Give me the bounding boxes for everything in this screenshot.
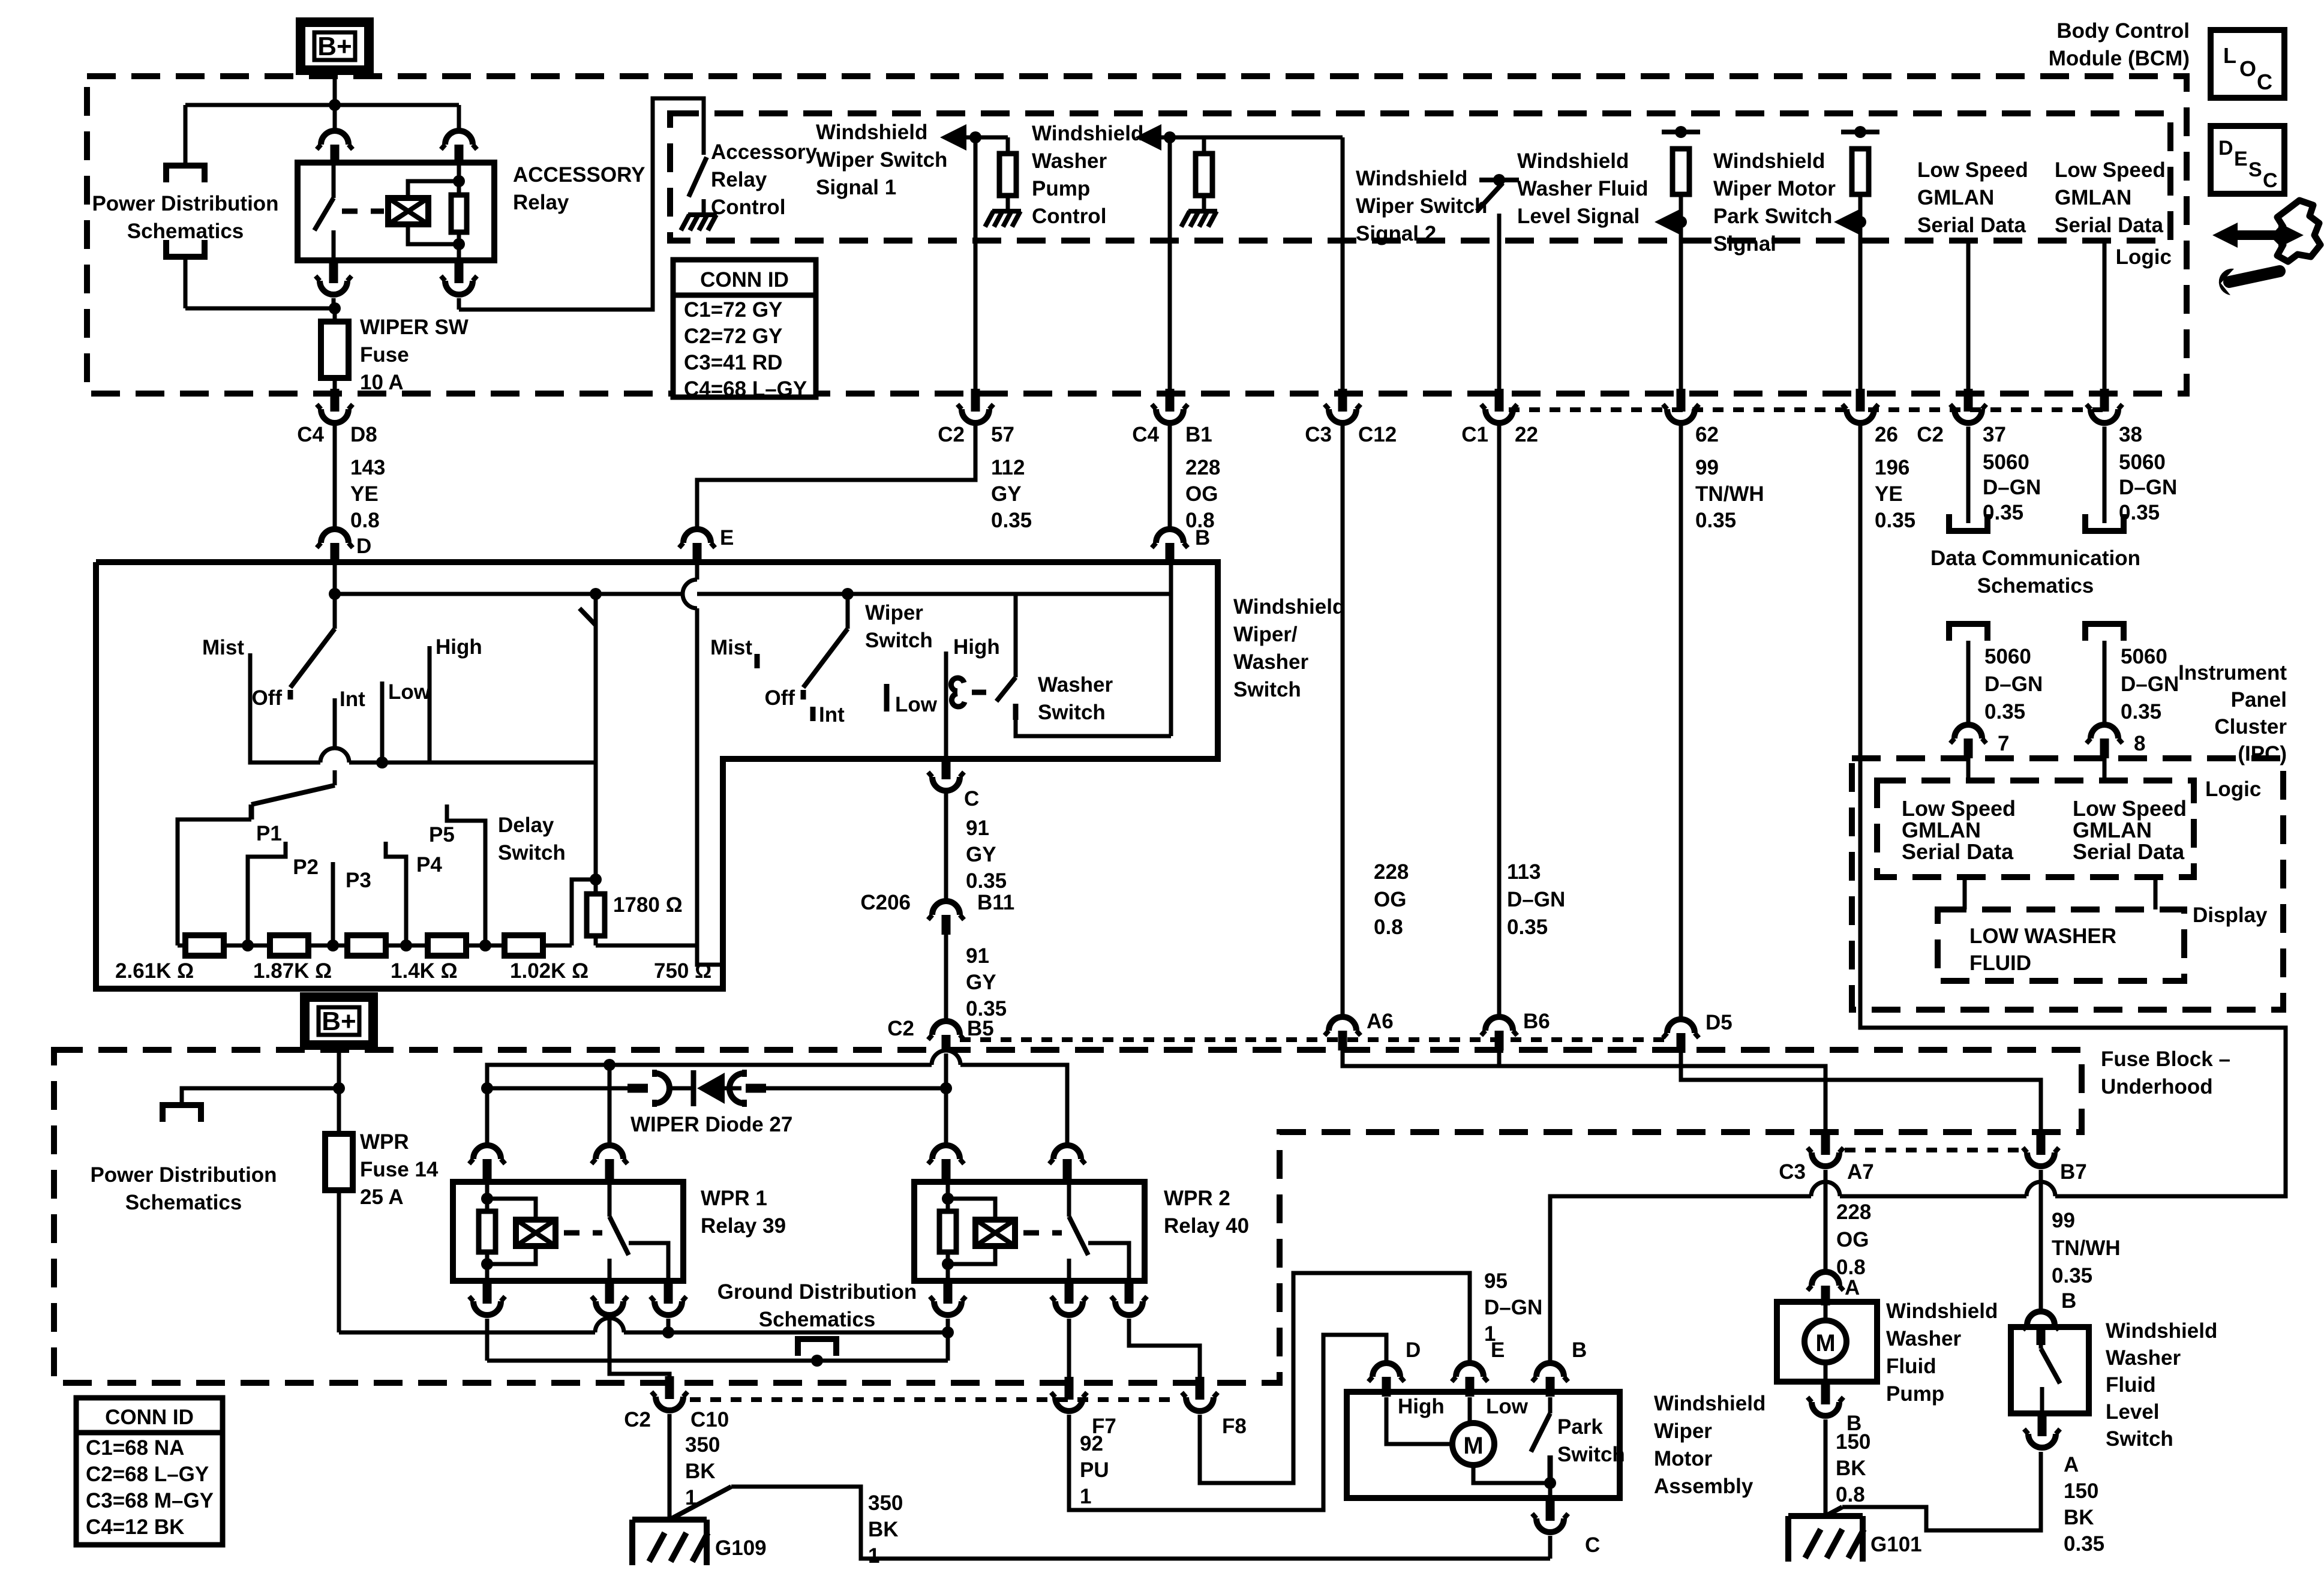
connector 7 [1954, 725, 1982, 739]
svg-text:C2=72 GY: C2=72 GY [684, 325, 782, 348]
svg-text:Delay: Delay [498, 813, 554, 837]
svg-text:D: D [2218, 137, 2233, 160]
svg-text:D: D [356, 535, 371, 558]
wire logic to display left [1963, 877, 1967, 909]
off-page connector data comm top right [2085, 514, 2124, 531]
svg-text:CONN ID: CONN ID [700, 268, 789, 292]
svg-text:57: 57 [991, 423, 1014, 446]
wire B down right side [1169, 562, 1173, 736]
svg-text:150: 150 [1836, 1430, 1870, 1454]
ground BCM signal1 [985, 211, 993, 227]
connector D5 [1667, 1019, 1695, 1033]
svg-text:YE: YE [1875, 482, 1903, 506]
wire top rail [185, 103, 459, 107]
wire B+2 down [337, 1045, 341, 1088]
hop of bus over Int wire [250, 761, 320, 765]
connector A level switch [2038, 1413, 2047, 1436]
svg-text:0.35: 0.35 [1695, 509, 1736, 532]
svg-text:O: O [2239, 56, 2256, 81]
svg-text:GY: GY [966, 971, 996, 994]
svg-text:Washer: Washer [1233, 650, 1309, 674]
svg-text:91: 91 [966, 816, 989, 840]
svg-text:Low: Low [388, 680, 431, 704]
svg-text:D: D [1406, 1338, 1421, 1362]
dotted line C2 bottom [960, 1037, 1674, 1042]
connector 8 [2091, 725, 2118, 739]
svg-text:0.8: 0.8 [350, 509, 380, 532]
svg-text:0.8: 0.8 [1374, 915, 1403, 939]
washer fluid level switch symbol in BCM [1479, 178, 1519, 182]
wire 62 park switch signal [1675, 126, 1687, 138]
svg-text:Mist: Mist [202, 636, 244, 659]
svg-text:P1: P1 [256, 822, 282, 845]
svg-text:B11: B11 [977, 891, 1014, 914]
svg-text:C1: C1 [1461, 423, 1488, 446]
svg-text:143: 143 [350, 456, 385, 479]
svg-text:Accessory: Accessory [711, 140, 818, 164]
connector C3-A7 [1821, 1132, 1830, 1155]
connector F8 [1196, 1377, 1205, 1400]
High pin [428, 646, 432, 763]
svg-text:P5: P5 [429, 823, 455, 846]
connector C2-B5 [932, 1021, 960, 1035]
off-page connector power distribution 2 [163, 1105, 201, 1122]
svg-text:M: M [1815, 1330, 1835, 1356]
svg-text:C2: C2 [1917, 423, 1944, 446]
svg-text:Pump: Pump [1032, 177, 1090, 200]
svg-text:A: A [1845, 1276, 1860, 1299]
op windshield wiper motor assembly box [1347, 1392, 1620, 1498]
svg-text:LOW WASHER: LOW WASHER [1969, 924, 2116, 948]
svg-text:1.02K Ω: 1.02K Ω [510, 959, 588, 983]
resistor 1.02K [428, 935, 466, 956]
wire D5 [1679, 425, 1683, 1017]
wire B1 down [1168, 137, 1172, 390]
svg-text:D–GN: D–GN [2119, 476, 2177, 499]
wire B7 to level switch [2039, 1170, 2043, 1310]
svg-text:A6: A6 [1367, 1010, 1394, 1033]
diode symbol [691, 1070, 696, 1106]
resistor BCM washer pump [1202, 137, 1206, 154]
svg-text:0.35: 0.35 [2064, 1532, 2104, 1556]
B+ terminal top [301, 22, 369, 70]
svg-text:92: 92 [1080, 1432, 1103, 1455]
svg-text:5060: 5060 [1984, 645, 2031, 668]
svg-text:P3: P3 [346, 869, 371, 892]
connector C4-D8 at BCM bottom [331, 389, 340, 412]
svg-text:Switch: Switch [1038, 701, 1106, 724]
wire G109 branch to motor return [669, 1487, 731, 1520]
svg-text:Windshield: Windshield [2106, 1319, 2217, 1343]
svg-text:Schematics: Schematics [125, 1191, 242, 1214]
wire B5 down to relay40 coil [944, 1053, 948, 1143]
svg-text:Wiper Switch: Wiper Switch [1356, 194, 1487, 218]
fuse WIPER SW Fuse 10A [333, 308, 337, 323]
DESC box [2211, 126, 2284, 194]
svg-text:C: C [2263, 169, 2278, 192]
wire 37 [1966, 241, 1971, 390]
washer pump control arrow [1135, 124, 1161, 151]
svg-text:Serial Data: Serial Data [2055, 214, 2163, 237]
wire relay40 coil return [946, 1319, 950, 1361]
wire 38 to bracket [2103, 427, 2107, 523]
relay39 switch [608, 1182, 612, 1217]
svg-text:Washer: Washer [1886, 1327, 1962, 1350]
svg-text:Schematics: Schematics [759, 1308, 876, 1331]
wire F7 down [1067, 1319, 1071, 1378]
relay39 dashed link [564, 1230, 602, 1236]
connector B pump [1821, 1382, 1830, 1404]
connector C4-B1 [1166, 389, 1175, 412]
svg-text:GMLAN: GMLAN [1902, 818, 1981, 842]
node P4 tap [479, 939, 491, 951]
off-page connector data comm bottom right [2085, 624, 2124, 641]
wire 143 YE to D connector [333, 425, 337, 527]
washer switch dashed link [972, 690, 997, 695]
svg-text:38: 38 [2119, 423, 2142, 446]
svg-text:P2: P2 [293, 855, 319, 879]
node relay40 coil [942, 1326, 954, 1338]
svg-text:0.35: 0.35 [1507, 915, 1548, 939]
svg-text:Logic: Logic [2116, 245, 2172, 269]
node rail junction [329, 99, 341, 111]
svg-text:C4: C4 [1132, 423, 1159, 446]
node park [1544, 1477, 1556, 1489]
svg-text:C4=12 BK: C4=12 BK [86, 1515, 184, 1539]
relay39 bottom connectors [483, 1281, 492, 1304]
svg-text:Windshield: Windshield [1032, 122, 1143, 145]
svg-text:99: 99 [1695, 456, 1719, 479]
svg-text:ACCESSORY: ACCESSORY [513, 163, 645, 187]
wire B6 [1497, 425, 1502, 1014]
wire motor to park node [1473, 1465, 1550, 1483]
wire F8 jog [1129, 1319, 1200, 1378]
svg-text:228: 228 [1185, 456, 1220, 479]
svg-text:Instrument: Instrument [2178, 661, 2287, 685]
svg-text:Windshield: Windshield [1356, 167, 1467, 190]
svg-text:Body Control: Body Control [2056, 19, 2190, 43]
ground G101 [1788, 1513, 1863, 1519]
left wiper switch blade [333, 594, 337, 629]
svg-text:7: 7 [1998, 732, 2009, 755]
relay40 dashed link [1023, 1230, 1062, 1236]
svg-text:B+: B+ [322, 1007, 356, 1036]
op washer pump box [1777, 1302, 1877, 1382]
P5 rail end riser [572, 879, 596, 945]
wiper switch signal 1 arrow [940, 124, 966, 151]
svg-text:95: 95 [1484, 1269, 1508, 1293]
svg-text:D–GN: D–GN [2121, 673, 2179, 696]
svg-text:Signal 1: Signal 1 [816, 176, 896, 199]
svg-text:C2=68 L–GY: C2=68 L–GY [86, 1463, 209, 1486]
svg-text:Assembly: Assembly [1654, 1475, 1753, 1498]
svg-text:TN/WH: TN/WH [2052, 1236, 2121, 1260]
svg-text:Level Signal: Level Signal [1517, 205, 1640, 228]
wire 5060 left [1966, 641, 1971, 722]
svg-text:Int: Int [340, 688, 365, 711]
svg-text:C3=68 M–GY: C3=68 M–GY [86, 1489, 214, 1512]
svg-text:E: E [2234, 148, 2248, 170]
resistor 1780 [594, 879, 598, 894]
svg-text:Signal 2: Signal 2 [1356, 222, 1436, 245]
svg-text:Module (BCM): Module (BCM) [2049, 47, 2190, 70]
svg-text:Logic: Logic [2205, 778, 2261, 801]
wire from bracket to fuse node [184, 258, 188, 308]
wire 57 down [974, 137, 978, 390]
wire A6 [1341, 425, 1345, 1014]
svg-text:Windshield: Windshield [1654, 1392, 1765, 1415]
resistor 1.4K [347, 935, 386, 956]
svg-text:G109: G109 [715, 1536, 767, 1560]
svg-text:C: C [2257, 70, 2272, 94]
accessory relay coil [388, 198, 428, 224]
arrow park switch signal [1655, 209, 1681, 235]
svg-text:37: 37 [1983, 423, 2006, 446]
wire pump to G101 [1824, 1419, 1828, 1516]
svg-text:Low Speed: Low Speed [1917, 158, 2028, 182]
svg-text:BK: BK [868, 1518, 899, 1541]
svg-text:A7: A7 [1847, 1160, 1874, 1184]
wire 26 [1854, 126, 1866, 138]
svg-text:M: M [1463, 1433, 1483, 1459]
High wire right switch [944, 652, 948, 759]
svg-text:WIPER Diode 27: WIPER Diode 27 [630, 1113, 792, 1136]
svg-text:Switch: Switch [1557, 1443, 1625, 1466]
svg-text:Off: Off [251, 686, 282, 710]
wire 37 to bracket [1966, 427, 1971, 523]
svg-text:F8: F8 [1222, 1415, 1247, 1438]
washer switch blade [996, 677, 1016, 701]
svg-text:1780 Ω: 1780 Ω [613, 893, 683, 917]
connector C206-B11 [932, 901, 960, 915]
svg-text:0.35: 0.35 [1875, 509, 1915, 532]
op washer fluid level switch box [2011, 1327, 2089, 1413]
svg-text:Serial Data: Serial Data [1917, 214, 2026, 237]
svg-text:Washer: Washer [1032, 149, 1107, 173]
svg-text:A: A [2064, 1453, 2079, 1476]
connector 26 [1856, 389, 1865, 412]
svg-text:Data Communication: Data Communication [1930, 547, 2140, 570]
accessory relay pin connectors top [333, 105, 337, 128]
svg-text:High: High [953, 635, 1000, 659]
dotted connector line C1 [1509, 407, 1852, 412]
svg-text:E: E [720, 526, 734, 550]
wire A7 to washer pump [1824, 1170, 1828, 1271]
connector 62 [1677, 389, 1686, 412]
svg-text:5060: 5060 [1983, 451, 2029, 474]
svg-text:B: B [2061, 1289, 2076, 1313]
Int wire below bus to delay blade [333, 770, 337, 785]
accessory relay control switch blade [689, 157, 707, 197]
op wiper washer switch assembly box outline [96, 562, 1218, 989]
dotted line A7 B7 [1845, 1148, 2022, 1152]
svg-text:BK: BK [2064, 1506, 2094, 1529]
wire 5060 right [2103, 641, 2107, 722]
svg-text:26: 26 [1875, 423, 1898, 446]
svg-text:B: B [1572, 1338, 1587, 1362]
connector D of wiper washer switch [321, 529, 349, 543]
wire relay39 third pin [666, 1319, 671, 1332]
wire D5 to B7 [1681, 1052, 2041, 1133]
svg-text:Schematics: Schematics [127, 220, 244, 243]
connector B6 [1485, 1017, 1513, 1031]
svg-text:WPR 2: WPR 2 [1164, 1187, 1230, 1210]
Int pin [333, 698, 337, 755]
node delay tap [590, 873, 602, 885]
relay39 coil [481, 1193, 493, 1205]
svg-text:C1=68 NA: C1=68 NA [86, 1436, 184, 1460]
table CONN ID BCM [673, 260, 816, 397]
relay40 switch [1067, 1182, 1071, 1217]
wire 112 GY to E connector [697, 425, 975, 527]
svg-text:350: 350 [685, 1433, 720, 1457]
wire delay ladder riser [178, 819, 251, 945]
Low pin [380, 682, 385, 763]
connector relay40 switch top [1053, 1145, 1081, 1159]
right wiper switch [842, 588, 854, 600]
svg-text:C4: C4 [297, 423, 324, 446]
svg-text:1.87K Ω: 1.87K Ω [253, 959, 332, 983]
svg-text:Level: Level [2106, 1400, 2160, 1424]
op IPC logic dashed box [1877, 781, 2194, 877]
connector 38 [2100, 389, 2109, 412]
wire high to motor [1386, 1397, 1452, 1444]
svg-text:B7: B7 [2060, 1160, 2087, 1184]
svg-text:Switch: Switch [1233, 678, 1301, 701]
connector C2-57 [971, 389, 980, 412]
svg-text:C3: C3 [1779, 1160, 1806, 1184]
svg-text:Windshield: Windshield [816, 121, 927, 144]
svg-text:BK: BK [1836, 1457, 1866, 1480]
svg-text:0.35: 0.35 [966, 869, 1007, 893]
svg-text:Control: Control [1032, 205, 1106, 228]
svg-text:Pump: Pump [1886, 1382, 1944, 1406]
wire accessory relay control run [459, 98, 704, 310]
wire B+ feed to relays [339, 1331, 595, 1335]
svg-text:Wiper: Wiper [865, 601, 923, 625]
svg-text:Underhood: Underhood [2101, 1075, 2213, 1098]
svg-text:D–GN: D–GN [1984, 673, 2043, 696]
svg-text:C: C [964, 787, 979, 810]
delay ladder rail [178, 944, 572, 948]
node third pin relay39 [662, 1326, 674, 1338]
svg-text:0.35: 0.35 [2121, 700, 2161, 724]
ground G109 [632, 1517, 707, 1523]
svg-text:E: E [1491, 1338, 1505, 1362]
svg-text:0.35: 0.35 [991, 509, 1032, 532]
svg-text:0.35: 0.35 [1984, 700, 2025, 724]
wire level switch return to G101 [1825, 1507, 1842, 1516]
op relay WPR 2 Relay 40 box [914, 1182, 1145, 1281]
svg-text:Low: Low [1486, 1395, 1529, 1418]
svg-text:Washer: Washer [2106, 1346, 2181, 1370]
svg-text:(IPC): (IPC) [2238, 742, 2287, 766]
svg-text:Switch: Switch [865, 629, 933, 652]
svg-text:Ground Distribution: Ground Distribution [717, 1280, 917, 1304]
svg-text:Low Speed: Low Speed [2055, 158, 2166, 182]
svg-text:5060: 5060 [2119, 451, 2166, 474]
svg-text:Mist: Mist [710, 636, 752, 659]
svg-text:C1=72 GY: C1=72 GY [684, 298, 782, 322]
svg-text:Windshield: Windshield [1886, 1299, 1998, 1323]
svg-text:C10: C10 [690, 1408, 729, 1431]
svg-text:Low: Low [895, 693, 938, 716]
svg-text:GMLAN: GMLAN [2073, 818, 2152, 842]
wire A6 B6 to A7 [1343, 1049, 1825, 1133]
svg-text:22: 22 [1515, 423, 1538, 446]
svg-text:GY: GY [966, 843, 996, 866]
node relay39 switch feed [603, 1059, 615, 1071]
svg-text:OG: OG [1836, 1228, 1869, 1251]
svg-text:Fuse 14: Fuse 14 [360, 1158, 439, 1181]
relay40 bottom connectors [944, 1281, 953, 1304]
svg-text:Signal: Signal [1713, 232, 1776, 256]
connector C3-C12 [1338, 389, 1347, 412]
svg-text:Motor: Motor [1654, 1447, 1713, 1470]
connector C2-37 [1964, 389, 1973, 412]
connector relay39 coil top [473, 1145, 501, 1159]
resistor 2.61K [185, 935, 224, 956]
svg-text:High: High [436, 635, 482, 659]
op relay ACCESSORY Relay box [298, 163, 494, 260]
svg-text:C3=41 RD: C3=41 RD [684, 351, 782, 374]
wire left branch down [184, 105, 188, 164]
svg-text:Windshield: Windshield [1517, 149, 1629, 173]
svg-text:BK: BK [685, 1460, 716, 1483]
svg-text:TN/WH: TN/WH [1695, 482, 1764, 506]
connector C2-C10 [665, 1376, 674, 1399]
svg-text:Switch: Switch [2106, 1427, 2173, 1451]
node P1 tap [242, 939, 254, 951]
svg-text:P4: P4 [416, 853, 442, 876]
svg-text:B: B [1195, 526, 1210, 550]
ground accessory relay control [681, 215, 689, 230]
arrow 26 [1834, 209, 1860, 235]
svg-text:Low Speed: Low Speed [1902, 796, 2016, 821]
svg-text:Control: Control [711, 196, 785, 219]
washer switch contact [951, 678, 964, 691]
connector A6 [1329, 1017, 1356, 1031]
svg-text:1: 1 [868, 1544, 879, 1568]
svg-text:OG: OG [1374, 888, 1406, 911]
svg-text:150: 150 [2064, 1479, 2098, 1503]
svg-text:Wiper Switch: Wiper Switch [816, 148, 947, 172]
svg-text:FLUID: FLUID [1969, 951, 2031, 975]
svg-text:WIPER SW: WIPER SW [360, 316, 469, 339]
delay switch wiper arm [590, 588, 602, 600]
svg-text:Cluster: Cluster [2214, 715, 2287, 739]
svg-text:Power Distribution: Power Distribution [92, 192, 278, 215]
connector relay39 switch top [596, 1145, 623, 1159]
BCM inner logic dashed box [670, 113, 2170, 241]
svg-text:C2: C2 [624, 1408, 651, 1431]
connector C1-22 [1495, 389, 1504, 412]
svg-text:OG: OG [1185, 482, 1218, 506]
svg-text:228: 228 [1374, 860, 1409, 884]
svg-text:Fluid: Fluid [1886, 1355, 1936, 1378]
svg-text:Relay 39: Relay 39 [701, 1214, 786, 1238]
motor washer pump M [1804, 1320, 1846, 1362]
svg-text:Schematics: Schematics [1977, 574, 2094, 598]
wire 1780 to E riser [596, 944, 697, 948]
svg-text:D–GN: D–GN [1507, 888, 1565, 911]
connector C out of switch box [942, 757, 951, 779]
svg-text:D–GN: D–GN [1983, 476, 2041, 499]
off-page connector to Power Distribution top [166, 166, 205, 182]
fuse WPR Fuse 14 25A [337, 1088, 341, 1135]
LOC box [2211, 30, 2284, 98]
svg-text:Low Speed: Low Speed [2073, 796, 2187, 821]
